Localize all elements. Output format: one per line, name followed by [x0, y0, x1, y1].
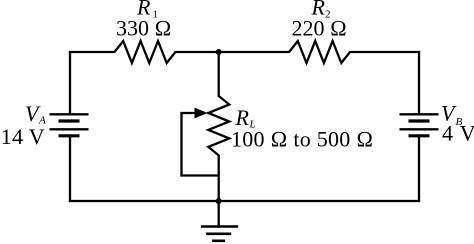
svg-text:14 V: 14 V [1, 124, 45, 149]
svg-text:330 Ω: 330 Ω [116, 16, 171, 41]
svg-text:100 Ω to 500 Ω: 100 Ω to 500 Ω [231, 127, 373, 152]
svg-text:220 Ω: 220 Ω [292, 16, 347, 41]
svg-text:4 V: 4 V [442, 121, 474, 146]
